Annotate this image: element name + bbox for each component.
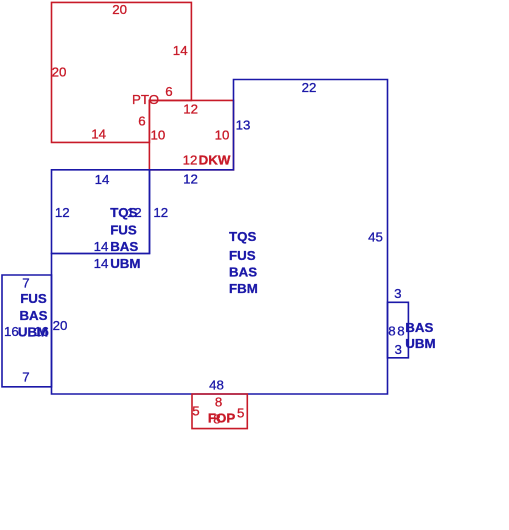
svg-text:10: 10 — [151, 127, 166, 142]
svg-text:12: 12 — [153, 205, 168, 220]
svg-text:UBM: UBM — [405, 336, 435, 351]
svg-text:5: 5 — [237, 406, 244, 421]
svg-text:14: 14 — [173, 43, 188, 58]
svg-text:20: 20 — [53, 318, 68, 333]
svg-text:22: 22 — [302, 80, 317, 95]
room TQS rect (blue) — [52, 170, 150, 254]
room FOP outline (red rect) — [192, 394, 247, 429]
svg-text:FUS: FUS — [229, 248, 256, 263]
svg-text:BAS: BAS — [229, 265, 257, 280]
svg-text:5: 5 — [192, 404, 199, 419]
svg-text:12: 12 — [55, 205, 70, 220]
svg-text:12: 12 — [183, 172, 198, 187]
svg-text:45: 45 — [368, 229, 383, 244]
svg-text:7: 7 — [22, 275, 29, 290]
svg-text:20: 20 — [112, 2, 127, 17]
svg-text:12: 12 — [183, 102, 198, 117]
svg-text:BAS: BAS — [110, 239, 138, 254]
svg-text:8: 8 — [397, 323, 404, 338]
svg-text:3: 3 — [394, 342, 401, 357]
svg-text:16: 16 — [4, 324, 19, 339]
svg-text:TQS: TQS — [110, 205, 137, 220]
svg-text:FOP: FOP — [208, 410, 235, 425]
svg-text:14: 14 — [94, 239, 109, 254]
svg-text:UBM: UBM — [18, 325, 48, 340]
svg-text:6: 6 — [138, 114, 145, 129]
svg-text:3: 3 — [394, 286, 401, 301]
svg-text:BAS: BAS — [405, 320, 433, 335]
svg-text:6: 6 — [165, 84, 172, 99]
svg-text:13: 13 — [236, 118, 251, 133]
svg-text:DKW: DKW — [199, 153, 231, 168]
room DKW outline (red rect) — [149, 100, 233, 169]
main room outline (blue polygon) — [52, 80, 388, 395]
svg-text:14: 14 — [91, 127, 106, 142]
svg-text:UBM: UBM — [110, 256, 140, 271]
svg-text:TQS: TQS — [229, 229, 256, 244]
svg-text:14: 14 — [94, 256, 109, 271]
left room rect (blue) — [2, 275, 52, 387]
svg-text:10: 10 — [215, 127, 230, 142]
svg-text:PTO: PTO — [132, 92, 159, 107]
svg-text:48: 48 — [209, 378, 224, 393]
svg-text:7: 7 — [22, 370, 29, 385]
svg-text:14: 14 — [95, 172, 110, 187]
svg-text:20: 20 — [52, 65, 67, 80]
svg-text:8: 8 — [388, 323, 395, 338]
svg-text:BAS: BAS — [19, 308, 47, 323]
svg-text:FBM: FBM — [229, 281, 258, 296]
right room rect (blue) — [388, 302, 409, 358]
room PTO outline (red L-shape) — [52, 2, 192, 142]
svg-text:8: 8 — [215, 395, 222, 410]
svg-text:FUS: FUS — [20, 291, 47, 306]
svg-text:FUS: FUS — [110, 223, 137, 238]
svg-text:12: 12 — [183, 153, 198, 168]
